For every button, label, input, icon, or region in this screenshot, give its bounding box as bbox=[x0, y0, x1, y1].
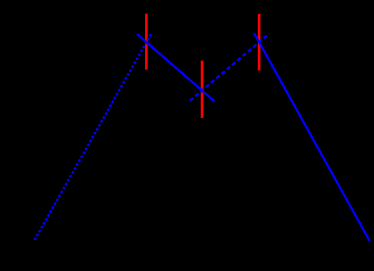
wire: dashed blue line 3, through valley up to right peak bbox=[190, 34, 269, 101]
wire: solid blue line 2, through left peak down to valley bbox=[137, 34, 214, 101]
wire: solid blue line 4, through right peak down to lower-right bbox=[254, 33, 370, 241]
wire: dashed blue line 1, lower-left up through left peak bbox=[35, 32, 152, 240]
red tick 1 (at left peak) bbox=[145, 14, 148, 70]
red tick 2 (at valley) bbox=[201, 61, 204, 118]
red tick 3 (at right peak) bbox=[258, 14, 261, 71]
